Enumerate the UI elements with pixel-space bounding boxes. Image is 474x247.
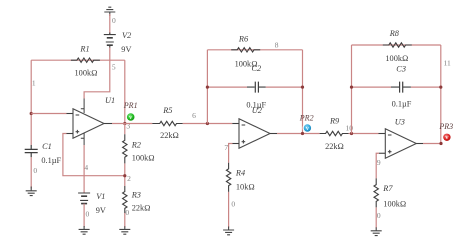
svg-text:6: 6 bbox=[192, 111, 196, 120]
wire V1 to ground bbox=[83, 204, 85, 227]
svg-text:0: 0 bbox=[86, 210, 90, 219]
svg-text:8: 8 bbox=[275, 41, 279, 50]
ground (below V1) bbox=[79, 226, 90, 234]
svg-text:0: 0 bbox=[125, 208, 129, 217]
capacitor C1 bbox=[25, 145, 38, 157]
wire R8 row bbox=[352, 44, 441, 46]
wire R4 to ground bbox=[228, 192, 230, 228]
resistor R5 bbox=[152, 121, 182, 125]
svg-text:9V: 9V bbox=[121, 45, 131, 54]
svg-text:9: 9 bbox=[377, 158, 381, 167]
svg-text:R9: R9 bbox=[329, 116, 340, 125]
svg-text:11: 11 bbox=[443, 59, 450, 68]
svg-text:R2: R2 bbox=[131, 140, 141, 149]
svg-text:PR2: PR2 bbox=[299, 114, 314, 123]
wire opamp minus input bbox=[31, 113, 66, 115]
C3 junctions bbox=[350, 86, 353, 89]
svg-text:U2: U2 bbox=[252, 106, 262, 115]
svg-text:C1: C1 bbox=[42, 142, 52, 151]
node 2 junction bbox=[123, 174, 126, 177]
svg-text:0: 0 bbox=[33, 166, 37, 175]
ground (below R7) bbox=[371, 227, 382, 235]
op-amp U3 bbox=[385, 129, 416, 159]
wire U2 plus input bbox=[233, 143, 240, 145]
battery V2 bbox=[104, 33, 116, 48]
svg-text:R7: R7 bbox=[382, 184, 393, 193]
svg-text:V2: V2 bbox=[122, 31, 131, 40]
resistor R4 bbox=[226, 163, 230, 192]
ground (below R4) bbox=[223, 227, 234, 235]
node PR3 attachment bbox=[439, 142, 442, 145]
resistor R1 bbox=[71, 58, 100, 62]
svg-text:R8: R8 bbox=[389, 29, 400, 38]
wire V2 to opamp V+ dogleg bbox=[84, 48, 110, 99]
svg-text:R3: R3 bbox=[131, 191, 141, 200]
resistor R8 bbox=[383, 43, 412, 47]
wire C2 row bbox=[207, 86, 302, 88]
resistor R3 bbox=[123, 186, 127, 213]
wire R2 column bbox=[124, 124, 126, 228]
resistor R9 bbox=[320, 131, 349, 135]
wire U3 plus input bbox=[379, 152, 385, 154]
svg-text:2: 2 bbox=[127, 174, 131, 183]
wire C3 row bbox=[352, 86, 441, 88]
node PR2 junction bbox=[301, 132, 304, 135]
svg-text:5: 5 bbox=[112, 62, 116, 71]
wire feedback loop left vertical bbox=[206, 50, 208, 124]
pin 5 stub bbox=[81, 99, 84, 114]
wire node1 vertical left bbox=[30, 60, 32, 145]
svg-text:R5: R5 bbox=[162, 106, 172, 115]
svg-text:0.1µF: 0.1µF bbox=[392, 100, 412, 109]
svg-text:10kΩ: 10kΩ bbox=[236, 182, 255, 191]
ground (below R3) bbox=[119, 226, 130, 234]
svg-text:100kΩ: 100kΩ bbox=[383, 200, 406, 209]
wire feedback right vertical to output bbox=[124, 60, 126, 123]
C2 junctions bbox=[206, 86, 209, 89]
resistor R7 bbox=[374, 178, 378, 207]
wire U3 output bbox=[416, 143, 423, 145]
svg-text:0: 0 bbox=[377, 211, 381, 220]
svg-text:100kΩ: 100kΩ bbox=[132, 154, 155, 163]
ground (top, above V2) bbox=[104, 7, 115, 16]
svg-text:10: 10 bbox=[346, 124, 354, 133]
wire C1 to ground bbox=[30, 157, 32, 188]
svg-text:V1: V1 bbox=[96, 192, 105, 201]
wire feedback 3 right vertical bbox=[440, 45, 442, 144]
wire U1 out to U2 in bbox=[104, 123, 112, 125]
svg-text:7: 7 bbox=[224, 143, 228, 152]
capacitor C3 bbox=[391, 82, 411, 93]
capacitor C2 bbox=[247, 82, 266, 93]
wire R1 row bbox=[31, 59, 125, 61]
wire R7 to ground bbox=[375, 207, 377, 228]
svg-text:R6: R6 bbox=[238, 34, 249, 43]
wire plus input bbox=[67, 133, 74, 135]
battery V1 bbox=[78, 193, 90, 204]
svg-text:U3: U3 bbox=[395, 118, 405, 127]
svg-text:0: 0 bbox=[231, 199, 235, 208]
pin 4 stub bbox=[81, 133, 84, 145]
svg-text:0.1µF: 0.1µF bbox=[41, 156, 61, 165]
svg-text:U1: U1 bbox=[105, 96, 115, 105]
node 1 junction bbox=[30, 112, 33, 115]
wire pin4 to V1 bbox=[83, 145, 85, 193]
op-amp U2 bbox=[239, 119, 270, 149]
wire feedback right vertical bbox=[302, 50, 304, 134]
wire feedback loop 3 left vertical bbox=[351, 45, 353, 134]
wire R6 row bbox=[207, 49, 302, 51]
svg-text:R1: R1 bbox=[79, 44, 89, 53]
svg-text:C3: C3 bbox=[396, 65, 406, 74]
op-amp U1 bbox=[73, 109, 104, 139]
svg-text:100kΩ: 100kΩ bbox=[75, 69, 98, 78]
node 3 junction bbox=[123, 122, 126, 125]
svg-text:1: 1 bbox=[32, 79, 36, 88]
svg-text:C2: C2 bbox=[252, 64, 262, 73]
svg-text:4: 4 bbox=[84, 163, 88, 172]
svg-text:22kΩ: 22kΩ bbox=[160, 131, 179, 140]
svg-text:0: 0 bbox=[112, 16, 116, 25]
resistor R6 bbox=[231, 48, 260, 52]
ground (below C1) bbox=[26, 187, 37, 196]
resistor R2 bbox=[123, 134, 127, 163]
wire U2 output bbox=[270, 133, 277, 135]
svg-text:9V: 9V bbox=[96, 206, 106, 215]
svg-text:22kΩ: 22kΩ bbox=[325, 142, 344, 151]
svg-text:R4: R4 bbox=[235, 169, 245, 178]
svg-text:PR1: PR1 bbox=[123, 101, 138, 110]
svg-text:22kΩ: 22kΩ bbox=[132, 204, 151, 213]
wire R9 to U3 bbox=[349, 133, 379, 135]
wire ground to V2 bbox=[109, 14, 111, 35]
svg-text:PR3: PR3 bbox=[438, 122, 453, 131]
svg-text:100kΩ: 100kΩ bbox=[385, 54, 408, 63]
